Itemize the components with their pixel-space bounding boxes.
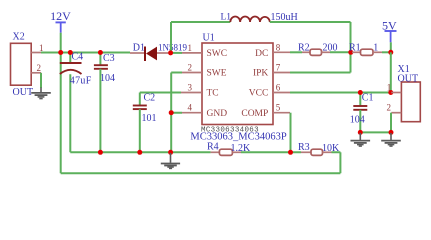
connector X1 — [398, 64, 421, 122]
svg-text:C1: C1 — [362, 93, 374, 104]
node VCC/X1 junction — [388, 90, 393, 95]
node C1 top — [358, 90, 363, 95]
node 5V junction — [388, 50, 393, 55]
ground under X2 — [31, 88, 51, 99]
svg-text:1N5819: 1N5819 — [158, 43, 187, 53]
svg-text:5: 5 — [276, 103, 281, 113]
wire SWE/GND vertical to ground rail — [171, 73, 182, 153]
svg-text:IPK: IPK — [253, 69, 268, 79]
node C2 bottom — [137, 150, 142, 155]
wire X1 pin2 down — [390, 113, 392, 133]
node 12V junction — [58, 50, 63, 55]
pin 2 of X1 — [387, 103, 402, 113]
wire 12V rail down to bottom feedback wire — [60, 53, 62, 174]
pin 1 of X1 — [387, 83, 402, 93]
wire 12V rail (row 1 left) — [41, 52, 130, 54]
resistor R4 — [207, 142, 251, 156]
wire IPK horizontal — [290, 72, 351, 74]
resistor R1 — [349, 43, 391, 56]
svg-text:C3: C3 — [103, 53, 115, 64]
svg-text:4: 4 — [188, 103, 193, 113]
svg-text:DC: DC — [255, 49, 268, 59]
wire C1 to grounds — [360, 131, 391, 133]
ground right 1 — [351, 133, 371, 146]
pin 8 DC — [255, 43, 290, 60]
svg-text:SWE: SWE — [207, 69, 227, 79]
diode D1 — [130, 43, 187, 61]
wire R3 to bottom — [339, 152, 341, 173]
pin 7 IPK — [253, 63, 290, 79]
node C3 junction — [98, 50, 103, 55]
svg-text:8: 8 — [276, 43, 281, 53]
power flag 5V — [382, 18, 397, 52]
capacitor C4 — [60, 51, 92, 152]
node C3 bottom — [98, 150, 103, 155]
svg-text:SWC: SWC — [207, 49, 228, 59]
wire COMP drop — [290, 113, 292, 153]
pin 1 of X2 — [31, 43, 43, 53]
svg-text:104: 104 — [350, 115, 365, 126]
ground mid — [161, 153, 180, 168]
svg-text:L1: L1 — [221, 13, 232, 23]
svg-text:7: 7 — [276, 63, 281, 73]
wire X2 pin2 to ground — [40, 73, 42, 88]
svg-text:1: 1 — [188, 43, 193, 53]
svg-text:200: 200 — [323, 43, 338, 54]
svg-text:OUT: OUT — [398, 73, 419, 84]
resistor R2 — [290, 43, 351, 56]
svg-text:R3: R3 — [298, 142, 310, 153]
svg-text:2: 2 — [188, 63, 193, 73]
node C1 bottom — [358, 130, 363, 135]
svg-text:VCC: VCC — [249, 89, 269, 99]
wire VCC — [290, 92, 391, 94]
svg-text:MC33063_MC34063P: MC33063_MC34063P — [190, 131, 286, 142]
capacitor C1 — [350, 93, 374, 133]
capacitor C3 — [94, 53, 115, 153]
svg-text:2: 2 — [387, 103, 392, 113]
node X1 pin2 bottom — [389, 130, 394, 135]
svg-text:1: 1 — [373, 43, 378, 54]
svg-text:10K: 10K — [322, 143, 340, 154]
svg-text:6: 6 — [276, 83, 281, 93]
node SWE bottom — [168, 150, 173, 155]
pin 6 VCC — [249, 83, 290, 99]
inductor L1 — [221, 12, 298, 23]
svg-text:R1: R1 — [349, 43, 361, 54]
wire top to L1 — [171, 21, 230, 23]
pin 2 of X2 — [31, 63, 41, 73]
pin 3 TC — [181, 83, 219, 99]
svg-text:C2: C2 — [144, 92, 156, 103]
power flag 12V — [50, 9, 71, 53]
op-amp U1 box — [190, 33, 286, 143]
svg-text:TC: TC — [207, 89, 219, 99]
node R2/R1/L1/IPK junction — [348, 50, 353, 55]
ground right 2 — [381, 133, 401, 146]
svg-text:3: 3 — [188, 83, 193, 93]
svg-text:X2: X2 — [13, 32, 25, 43]
svg-text:R4: R4 — [207, 142, 219, 153]
node feedback — [288, 150, 293, 155]
resistor R3 — [298, 142, 340, 156]
wire 5V down to X1 pin1 — [390, 52, 392, 92]
wire ground rail (mid) — [70, 151, 340, 153]
wire L1 left drop — [170, 22, 172, 53]
svg-text:C4: C4 — [72, 51, 84, 62]
pin 1 SWC — [182, 43, 227, 59]
node GND junction — [169, 110, 174, 115]
svg-text:D1: D1 — [133, 43, 145, 54]
pin 4 GND — [182, 103, 227, 119]
svg-text:U1: U1 — [203, 33, 215, 44]
svg-text:101: 101 — [142, 113, 157, 124]
svg-text:1.2K: 1.2K — [231, 143, 252, 154]
svg-text:12V: 12V — [50, 9, 71, 23]
node SWC junction — [168, 50, 173, 55]
pin 2 SWE — [182, 63, 227, 79]
connector X2 — [11, 32, 34, 98]
svg-text:1: 1 — [387, 83, 392, 93]
wire IPK vertical — [350, 22, 352, 73]
svg-text:47uF: 47uF — [70, 76, 92, 87]
node C4 junction — [68, 50, 73, 55]
wire bottom feedback — [61, 172, 341, 174]
pin 5 COMP — [241, 103, 290, 119]
wire D1 to U1 pin1 — [173, 52, 182, 54]
svg-text:GND: GND — [207, 109, 228, 119]
wire L1 to IPK drop — [270, 21, 351, 23]
svg-text:OUT: OUT — [13, 87, 34, 98]
capacitor C2 — [133, 92, 181, 152]
svg-text:104: 104 — [100, 73, 115, 84]
svg-text:R2: R2 — [298, 43, 310, 54]
svg-text:COMP: COMP — [241, 109, 268, 119]
svg-text:2: 2 — [37, 63, 42, 73]
